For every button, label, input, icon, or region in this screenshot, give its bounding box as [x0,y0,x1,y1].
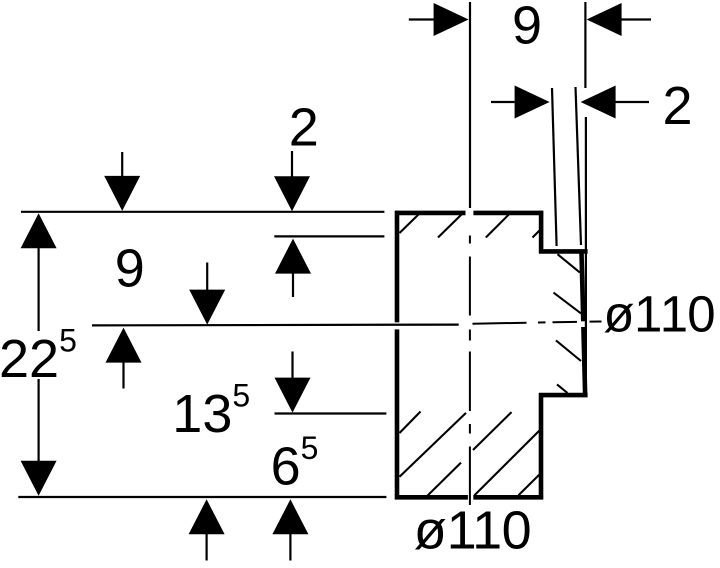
hatch u1 [400,214,420,234]
dim 9 left up-arrow stem [122,362,124,389]
svg-text:ø110: ø110 [414,501,532,561]
hatch l5 [519,474,540,495]
dimension line B (2mm recess plane) [274,235,384,237]
svg-text:ø110: ø110 [603,285,715,342]
arrowhead up, dim 9 left [106,328,142,363]
dim 2 left up-arrow stem [292,273,294,297]
dim 22.5 stem lower [37,379,39,462]
extension line spigot inner wall (slanted) [552,88,557,246]
dim 13.5 up-arrow stem [206,534,208,561]
svg-text:2: 2 [662,76,692,136]
vertical centreline dash 2 [469,352,471,412]
hatch l1 [400,412,421,434]
arrowhead down, dim 2 left [274,176,310,211]
hatch s2 [554,293,582,314]
part outline: spigot right edge lower (tapered) [583,327,585,397]
hatch l4 [475,430,540,495]
arrowhead up, dim 13.5 [189,499,225,534]
arrowhead up, dim 22.5 top [21,213,57,248]
hatch u3 [486,214,510,238]
dimension line C (centre plane, left solid part) [92,324,459,327]
hatch s1 [558,254,580,272]
arrowhead down, dim 13.5 [189,290,225,325]
arrowhead down, dim 9 left [104,176,140,211]
arrowhead right, dim 2 top [515,86,550,119]
svg-text:9: 9 [512,0,542,55]
hatch s3 [556,340,581,361]
part outline: left edge upper [395,211,400,323]
dimension line A (top face plane) [21,211,384,213]
vertical centreline dash 1 [469,257,471,316]
dim 22.5 stem upper [37,247,39,331]
dim 9 top right stem [621,18,651,20]
extension line spigot outer wall (slanted) [576,87,582,245]
vertical centreline dot 2 [469,330,471,341]
dim 13.5 down-arrow stem [206,263,208,291]
vertical centreline dot 1 [469,236,471,244]
vertical centreline dot 3 [469,424,471,434]
part outline: spigot right edge upper (tapered) [581,249,583,321]
part outline: step top horizontal [539,249,588,254]
extension line of spigot outer face (top) [584,2,586,88]
hatch l3a [428,463,462,496]
arrowhead down, dim 6.5 [275,378,311,413]
horizontal centreline dot 1 [538,321,546,323]
part outline: bottom edge right of centreline [473,495,543,500]
dimension line E (bottom face plane) [18,496,386,498]
dim 6.5 up-arrow stem [289,534,291,561]
part outline: step bottom horizontal [539,393,588,398]
part outline: left edge lower [395,329,400,499]
dim 6.5 down-arrow stem [291,352,293,379]
svg-text:9: 9 [115,239,145,299]
part outline: upper right corner vertical [539,211,544,254]
dim 9 left down-arrow stem [121,152,123,177]
dim 9 top left stem [409,18,434,20]
svg-text:135: 135 [172,377,250,444]
hatch u2 [438,214,463,238]
arrowhead up, dim 6.5 [272,499,308,534]
extension of vertical centreline above part [469,2,471,208]
hatch l3b [473,412,512,450]
part outline: top edge right of centreline [473,211,543,216]
part outline: lower right vertical [539,393,544,499]
hatch l2 [400,413,467,477]
arrowhead left, dim 9 top [587,3,622,36]
svg-text:2: 2 [289,97,319,157]
part outline: bottom edge left of centreline [395,495,468,500]
svg-text:65: 65 [271,430,319,497]
arrowhead down, dim 22.5 bottom [21,461,57,496]
hatch u4 [533,229,542,238]
part outline: top edge left of centreline [395,211,466,216]
hatch s4 [557,384,568,393]
horizontal centreline dash 2 [553,321,578,323]
dim 2 top left stem [491,101,515,103]
svg-text:225: 225 [0,323,77,390]
arrowhead right, dim 9 top [434,3,469,36]
dim 2 top right stem [615,101,649,103]
horizontal centreline dash 3 (leader to right ø110) [590,320,602,322]
dimension line D (6.5 plane) [275,412,387,414]
horizontal centreline dash 1 [473,322,527,325]
arrowhead up, dim 2 left [275,239,311,274]
dim 2 left down-arrow stem [291,151,293,177]
arrowhead left, dim 2 top [581,86,616,119]
extension line spigot outer face (lower) [585,117,587,394]
vertical centreline dash 3 [469,447,471,506]
